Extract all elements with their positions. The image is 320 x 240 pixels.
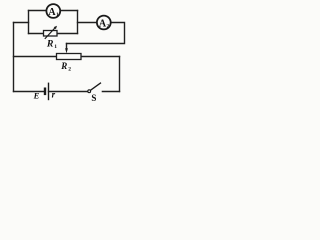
- svg-text:1: 1: [56, 12, 59, 18]
- wire: right rail: [119, 57, 121, 92]
- switch S pivot circle: [88, 90, 91, 93]
- wire: right junction to A2 left lead: [78, 22, 97, 24]
- wire: R2 left lead from rail: [14, 56, 57, 58]
- svg-text:E: E: [33, 90, 40, 100]
- wire: left junction vertical: [28, 11, 30, 34]
- svg-text:1: 1: [54, 44, 57, 50]
- wire: R1 branch right lead: [57, 33, 78, 35]
- wire: bottom rail, switch to right rail: [102, 91, 119, 93]
- wire: slider drop line: [66, 44, 68, 49]
- battery cell: long thin positive plate: [48, 83, 50, 101]
- wire: R2 right lead to rail: [81, 56, 120, 58]
- ammeter A1: [46, 4, 60, 18]
- wire: bottom rail, left to battery: [14, 91, 45, 93]
- slider arrowhead onto R2: [65, 48, 68, 53]
- wire: top branch, A1 to right junction: [60, 10, 77, 12]
- wire: A2 right lead to top-right corner, down and left to slider: [67, 23, 125, 44]
- wire: top branch, left junction to A1: [29, 10, 47, 12]
- wire: right junction vertical: [77, 11, 79, 34]
- wire: bottom rail, battery to switch: [49, 91, 88, 93]
- rheostat R1 box: [44, 31, 58, 37]
- svg-text:r: r: [52, 90, 56, 100]
- wire: R1 branch left lead: [29, 33, 44, 35]
- battery cell: short thick negative plate: [44, 88, 46, 96]
- wire: left tap from rail to junction: [14, 22, 29, 24]
- svg-text:R: R: [60, 61, 67, 71]
- circuit schematic: battery E,r with switch S; rheostat R1 parallel with ammeter A1; ammeter A2; resistor R2 with slider tap: [0, 0, 132, 108]
- svg-text:S: S: [91, 93, 96, 103]
- resistor R2 box: [57, 54, 82, 60]
- rheostat R1 diagonal arrow: [45, 26, 57, 39]
- paper background: [0, 0, 132, 108]
- svg-text:R: R: [46, 39, 54, 50]
- wire: left rail: [13, 23, 15, 92]
- svg-text:2: 2: [107, 23, 110, 29]
- switch S blade: [90, 83, 101, 91]
- svg-text:2: 2: [68, 66, 71, 72]
- ammeter A2: [97, 16, 111, 30]
